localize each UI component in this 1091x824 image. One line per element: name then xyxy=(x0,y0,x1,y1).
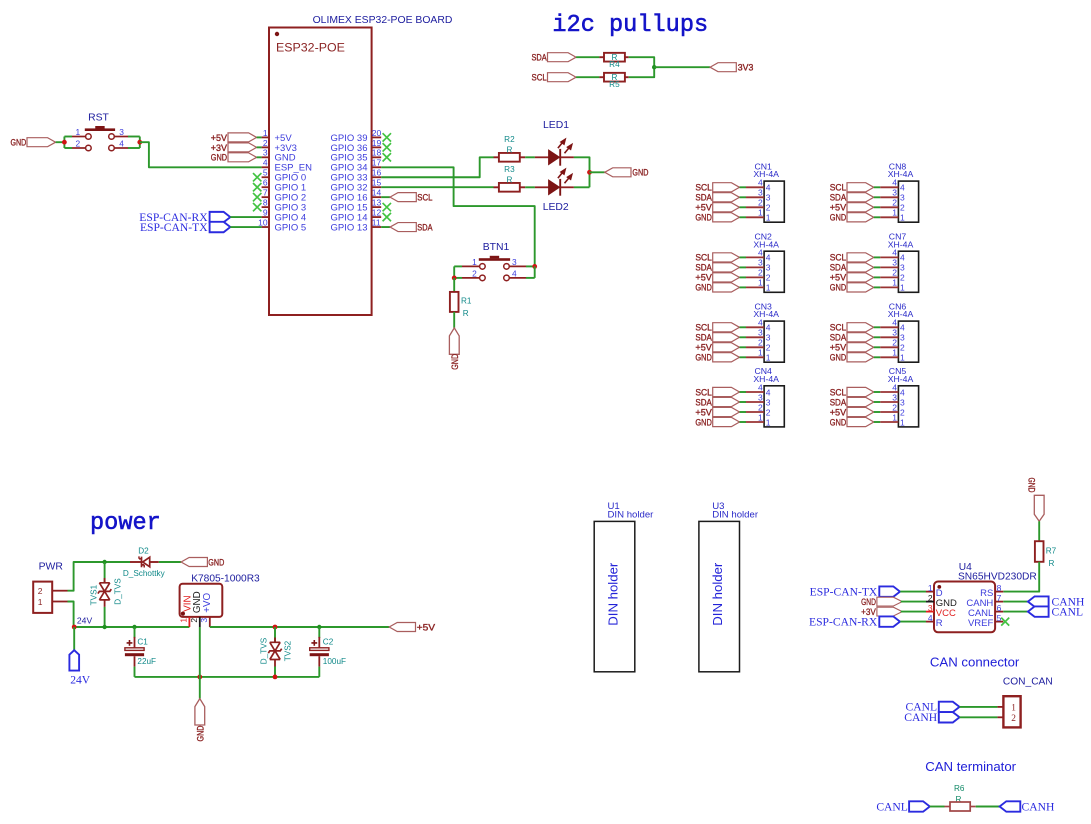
svg-text:4: 4 xyxy=(892,178,897,188)
svg-text:SDA: SDA xyxy=(532,53,548,64)
junction TVS1 top xyxy=(102,560,106,564)
CN5 pin 3 SDA xyxy=(830,392,905,408)
svg-text:3V3: 3V3 xyxy=(738,63,754,74)
svg-text:+VO: +VO xyxy=(202,592,213,612)
svg-text:1: 1 xyxy=(892,208,897,218)
CN4 pin 4 SCL xyxy=(695,382,770,398)
svg-text:1: 1 xyxy=(758,348,763,358)
wire +5V rail xyxy=(210,626,389,628)
svg-text:1: 1 xyxy=(179,618,189,623)
svg-text:2: 2 xyxy=(758,338,763,348)
svg-text:14: 14 xyxy=(372,188,382,198)
svg-text:SDA: SDA xyxy=(417,222,433,233)
svg-text:3: 3 xyxy=(928,603,933,613)
wire BTN1 left vertical xyxy=(453,266,455,278)
svg-text:R5: R5 xyxy=(609,80,620,89)
wire LED2 to GND node xyxy=(574,186,590,188)
connector CN5 XH-4A xyxy=(888,366,919,427)
resistor R4 xyxy=(599,53,628,69)
svg-text:LED2: LED2 xyxy=(543,202,569,213)
svg-text:+5V: +5V xyxy=(417,622,436,633)
U4 pin 2 GND xyxy=(926,593,957,609)
component U4 SN65HVD230DR xyxy=(934,562,1037,632)
svg-text:2: 2 xyxy=(766,407,771,417)
svg-text:GND: GND xyxy=(632,168,648,179)
svg-text:7: 7 xyxy=(997,593,1002,603)
wire BTN1 right vertical xyxy=(534,266,536,278)
TVS diode TVS1 xyxy=(89,562,122,607)
CN6 pin 1 GND xyxy=(830,348,905,364)
wire node to GND xyxy=(590,171,605,173)
svg-text:R3: R3 xyxy=(504,165,515,174)
svg-text:1: 1 xyxy=(766,213,771,223)
ESP32 pin 18 GPIO 35 xyxy=(331,148,382,164)
svg-text:R: R xyxy=(463,309,469,318)
svg-text:ESP32-POE: ESP32-POE xyxy=(276,41,345,55)
svg-text:1: 1 xyxy=(472,257,477,267)
svg-text:4: 4 xyxy=(263,158,268,168)
svg-text:3: 3 xyxy=(199,618,209,623)
wire R7 to RS pin xyxy=(1003,562,1039,592)
svg-text:3: 3 xyxy=(512,257,517,267)
wire pin14 to SCL xyxy=(381,196,390,198)
global label +3V at U4 xyxy=(861,607,926,617)
resistor R1 xyxy=(450,292,472,318)
svg-text:4: 4 xyxy=(892,248,897,258)
CN8 pin 1 GND xyxy=(830,208,905,224)
junction node 3V3 xyxy=(652,65,656,69)
ESP32 pin 4 ESP_EN xyxy=(262,158,313,174)
resistor R2 xyxy=(494,135,526,161)
junction TVS1 bottom xyxy=(102,625,106,629)
no-connect pin 6 xyxy=(253,183,261,191)
svg-text:3: 3 xyxy=(758,188,763,198)
svg-text:CANL: CANL xyxy=(876,800,908,813)
ESP32 pin 8 GPIO 3 xyxy=(262,198,307,214)
wire GND bus xyxy=(135,676,320,678)
svg-text:1: 1 xyxy=(76,127,81,137)
wire top rail to D2 xyxy=(105,561,130,563)
ESP32 pin 1 +5V xyxy=(262,128,293,144)
svg-text:5: 5 xyxy=(263,168,268,178)
wire R5 to node xyxy=(629,67,655,77)
svg-text:2: 2 xyxy=(928,593,933,603)
svg-text:BTN1: BTN1 xyxy=(483,242,510,253)
svg-text:15: 15 xyxy=(372,178,382,188)
CN1 pin 4 SCL xyxy=(695,178,770,194)
CN2 pin 4 SCL xyxy=(695,248,770,264)
hierarchical label ESP-CAN-TX xyxy=(140,221,262,234)
svg-text:2: 2 xyxy=(472,269,477,279)
global label GND after D2 xyxy=(181,557,224,568)
wire CANL to R6 xyxy=(930,806,945,808)
svg-text:GND: GND xyxy=(830,353,847,364)
svg-text:D_TVS: D_TVS xyxy=(113,578,122,605)
U4 pin 1 D xyxy=(926,583,943,599)
svg-text:D_Schottky: D_Schottky xyxy=(123,569,166,578)
junction C1 top xyxy=(132,625,136,629)
wire down to 24V flag xyxy=(73,627,75,650)
svg-text:K7805-1000R3: K7805-1000R3 xyxy=(191,573,260,584)
svg-text:3: 3 xyxy=(263,148,268,158)
svg-text:2: 2 xyxy=(38,586,43,596)
wire CANL xyxy=(1003,611,1028,613)
ESP32 pin 11 GPIO 13 xyxy=(331,217,382,233)
svg-text:ESP-CAN-TX: ESP-CAN-TX xyxy=(140,221,208,234)
svg-text:C2: C2 xyxy=(323,637,334,646)
svg-text:12: 12 xyxy=(372,207,382,217)
svg-text:R: R xyxy=(506,145,512,154)
svg-text:R2: R2 xyxy=(504,135,515,144)
svg-text:CAN terminator: CAN terminator xyxy=(925,759,1016,774)
no-connect pin 13 xyxy=(383,203,391,211)
svg-text:3: 3 xyxy=(892,328,897,338)
diode D2 D_Schottky xyxy=(123,547,166,579)
resistor R5 xyxy=(599,73,628,89)
U4 pin 8 RS xyxy=(980,583,1003,599)
CN2 pin 2 +5V xyxy=(695,268,770,284)
junction TVS2 top xyxy=(273,625,278,630)
svg-text:2: 2 xyxy=(766,343,771,353)
wire R6 to CANH xyxy=(976,806,1000,808)
svg-text:GND: GND xyxy=(695,353,712,364)
svg-text:R6: R6 xyxy=(954,784,965,793)
svg-text:CON_CAN: CON_CAN xyxy=(1003,676,1053,687)
svg-text:2: 2 xyxy=(758,402,763,412)
connector CN8 XH-4A xyxy=(888,161,919,222)
CN1 pin 1 GND xyxy=(695,208,770,224)
junction BTN1 left xyxy=(452,276,457,281)
svg-text:4: 4 xyxy=(512,269,517,279)
wire GPIO32 to R3 xyxy=(381,186,493,188)
svg-text:1: 1 xyxy=(263,128,268,138)
svg-text:1: 1 xyxy=(892,278,897,288)
hierarchical label CANL terminator xyxy=(876,800,929,813)
svg-text:CANH: CANH xyxy=(1022,800,1055,813)
svg-text:GND: GND xyxy=(830,213,847,224)
global label GND left xyxy=(11,138,56,149)
svg-text:2: 2 xyxy=(758,198,763,208)
svg-text:3: 3 xyxy=(766,263,771,273)
resistor R6 xyxy=(945,784,976,811)
ESP32 pin 2 +3V3 xyxy=(262,138,297,154)
svg-text:GND: GND xyxy=(830,417,847,428)
svg-text:8: 8 xyxy=(997,583,1002,593)
wire node to 3V3 xyxy=(654,66,710,68)
ESP32 pin 14 GPIO 16 xyxy=(331,188,382,204)
ESP32 pin 3 GND xyxy=(262,148,296,164)
wire GND to R7 xyxy=(1038,521,1040,541)
svg-text:4: 4 xyxy=(900,323,905,333)
no-connect pin 5 xyxy=(253,173,261,181)
svg-text:GND: GND xyxy=(695,283,712,294)
svg-text:3: 3 xyxy=(766,193,771,203)
svg-text:GND: GND xyxy=(196,725,207,741)
svg-text:9: 9 xyxy=(263,207,268,217)
svg-text:2: 2 xyxy=(900,343,905,353)
wire CANH xyxy=(960,716,998,718)
svg-text:CANH: CANH xyxy=(904,711,937,724)
no-connect pin 20 xyxy=(383,133,391,141)
junction PWR 24V xyxy=(72,625,77,630)
no-connect pin 7 xyxy=(253,193,261,201)
global label SCL xyxy=(390,193,433,204)
svg-text:1: 1 xyxy=(758,412,763,422)
wire CANL xyxy=(960,706,998,708)
hierarchical label CANL to connector xyxy=(906,701,960,714)
wire RST left vertical xyxy=(63,137,65,149)
svg-text:2: 2 xyxy=(900,273,905,283)
svg-text:R4: R4 xyxy=(609,60,620,69)
svg-text:4: 4 xyxy=(900,183,905,193)
svg-text:3: 3 xyxy=(766,333,771,343)
connector CN3 XH-4A xyxy=(753,301,784,362)
capacitor C2 100uF xyxy=(310,627,346,677)
wire D2 to GND xyxy=(159,561,181,563)
connector CN6 XH-4A xyxy=(888,301,919,362)
svg-text:2: 2 xyxy=(892,338,897,348)
svg-text:4: 4 xyxy=(766,253,771,263)
svg-text:LED1: LED1 xyxy=(543,120,569,131)
CN7 pin 1 GND xyxy=(830,278,905,294)
svg-text:R: R xyxy=(1049,559,1055,568)
svg-text:4: 4 xyxy=(758,318,763,328)
svg-text:i2c pullups: i2c pullups xyxy=(552,12,708,39)
pushbutton BTN1 xyxy=(454,256,535,281)
svg-text:3: 3 xyxy=(119,127,124,137)
svg-text:C1: C1 xyxy=(137,637,148,646)
svg-text:2: 2 xyxy=(76,139,81,149)
wire GPIO33 to R2 xyxy=(381,157,493,177)
svg-text:3: 3 xyxy=(758,392,763,402)
svg-text:R7: R7 xyxy=(1046,547,1057,556)
resistor R3 xyxy=(494,165,526,191)
ESP32 pin 9 GPIO 4 xyxy=(262,207,307,223)
power label 3V3 xyxy=(710,63,753,74)
connector CN2 XH-4A xyxy=(753,231,784,292)
svg-text:PWR: PWR xyxy=(39,562,64,573)
svg-text:4: 4 xyxy=(892,318,897,328)
svg-text:DIN holder: DIN holder xyxy=(606,562,621,626)
svg-text:1: 1 xyxy=(766,283,771,293)
svg-text:3: 3 xyxy=(892,258,897,268)
wire CANH xyxy=(1003,601,1028,603)
svg-text:3: 3 xyxy=(758,258,763,268)
ESP32 pin 10 GPIO 5 xyxy=(258,217,306,233)
wire regulator GND down xyxy=(199,627,201,699)
junction xyxy=(62,140,67,145)
svg-text:3: 3 xyxy=(758,328,763,338)
wire R1 to GND xyxy=(453,312,455,328)
svg-text:4: 4 xyxy=(758,178,763,188)
power label GND at pin 3 xyxy=(211,153,262,164)
svg-text:2: 2 xyxy=(263,138,268,148)
svg-text:1: 1 xyxy=(900,353,905,363)
power label +5V out xyxy=(389,622,436,633)
svg-text:GPIO 13: GPIO 13 xyxy=(331,222,368,233)
svg-text:GND: GND xyxy=(861,597,876,607)
svg-text:SCL: SCL xyxy=(532,73,548,84)
global label GND LEDs xyxy=(605,168,649,179)
no-connect pin 8 xyxy=(253,203,261,211)
CN6 pin 3 SDA xyxy=(830,328,905,344)
power flag GND above R7 xyxy=(1026,478,1045,522)
power flag GND regulator xyxy=(195,699,207,742)
CN5 pin 2 +5V xyxy=(830,402,905,418)
svg-text:2: 2 xyxy=(900,203,905,213)
junction LED GND xyxy=(587,170,592,175)
hierarchical label CANH xyxy=(1028,595,1085,608)
capacitor C1 22uF xyxy=(125,627,156,677)
svg-text:OLIMEX ESP32-POE BOARD: OLIMEX ESP32-POE BOARD xyxy=(313,15,453,26)
svg-text:1: 1 xyxy=(900,213,905,223)
CN7 pin 2 +5V xyxy=(830,268,905,284)
svg-text:GND: GND xyxy=(208,557,224,568)
wire GND to RST xyxy=(56,141,65,143)
svg-text:24V: 24V xyxy=(77,615,93,625)
svg-text:4: 4 xyxy=(758,382,763,392)
CN3 pin 4 SCL xyxy=(695,318,770,334)
hierarchical label ESP-CAN-TX at U4 xyxy=(810,585,926,598)
power label +5V at pin 1 xyxy=(211,133,262,144)
CN8 pin 4 SCL xyxy=(830,178,905,194)
pin-1 dot ESP32 xyxy=(275,32,279,36)
svg-text:3: 3 xyxy=(892,392,897,402)
svg-text:3: 3 xyxy=(766,397,771,407)
hierarchical label ESP-CAN-RX at U4 xyxy=(809,615,926,628)
ESP32 pin 5 GPIO 0 xyxy=(262,168,307,184)
wire SCL to R5 xyxy=(576,76,599,78)
svg-text:13: 13 xyxy=(372,198,382,208)
junction xyxy=(137,140,142,145)
svg-text:1: 1 xyxy=(892,412,897,422)
svg-text:3: 3 xyxy=(892,188,897,198)
svg-text:4: 4 xyxy=(766,323,771,333)
svg-text:SCL: SCL xyxy=(417,193,433,204)
svg-text:8: 8 xyxy=(263,198,268,208)
junction GND bus TVS2 xyxy=(273,675,278,680)
svg-text:11: 11 xyxy=(372,217,381,227)
wire RST right vertical xyxy=(139,137,141,149)
junction C2 top xyxy=(317,625,321,629)
connector CN4 XH-4A xyxy=(753,366,784,427)
svg-text:4: 4 xyxy=(766,387,771,397)
svg-text:4: 4 xyxy=(900,387,905,397)
svg-text:4: 4 xyxy=(758,248,763,258)
svg-text:R: R xyxy=(936,618,943,629)
ESP32 pin 7 GPIO 2 xyxy=(262,188,307,204)
wire RST to ESP_EN xyxy=(140,142,262,167)
CN3 pin 3 SDA xyxy=(695,328,770,344)
wire R3 to LED2 xyxy=(525,186,535,188)
wire GPIO34 to BTN1 xyxy=(381,167,535,266)
CN2 pin 1 GND xyxy=(695,278,770,294)
svg-text:GND: GND xyxy=(695,417,712,428)
no-connect VREF xyxy=(1001,618,1009,626)
svg-text:ESP-CAN-RX: ESP-CAN-RX xyxy=(809,615,878,628)
svg-text:1: 1 xyxy=(758,208,763,218)
LED LED2 xyxy=(535,169,574,196)
svg-text:TVS1: TVS1 xyxy=(89,584,98,605)
wire PWR pin1 to 24V rail xyxy=(68,602,74,628)
svg-text:1: 1 xyxy=(758,278,763,288)
svg-text:18: 18 xyxy=(372,148,382,158)
U4 pin 6 CANL xyxy=(968,603,1003,619)
ESP32 pin 6 GPIO 1 xyxy=(262,178,307,194)
global label SDA pullup xyxy=(532,53,577,64)
wire pin11 to SDA xyxy=(381,226,390,228)
svg-text:4: 4 xyxy=(900,253,905,263)
hierarchical label CANL xyxy=(1028,605,1083,618)
CN6 pin 2 +5V xyxy=(830,338,905,354)
svg-text:3: 3 xyxy=(900,263,905,273)
svg-text:1: 1 xyxy=(900,417,905,427)
CN7 pin 3 SDA xyxy=(830,258,905,274)
TVS diode TVS2 xyxy=(260,627,293,677)
no-connect pin 19 xyxy=(383,143,391,151)
global label GND at U4 xyxy=(861,597,926,607)
svg-text:3: 3 xyxy=(900,333,905,343)
wire R4 to node xyxy=(629,57,655,67)
svg-text:7: 7 xyxy=(263,188,268,198)
svg-text:CAN connector: CAN connector xyxy=(930,655,1020,670)
svg-text:1: 1 xyxy=(892,348,897,358)
svg-text:DIN holder: DIN holder xyxy=(712,510,759,521)
ESP32 pin 13 GPIO 15 xyxy=(331,198,382,214)
svg-text:4: 4 xyxy=(892,382,897,392)
svg-text:2: 2 xyxy=(892,198,897,208)
svg-text:GND: GND xyxy=(830,283,847,294)
svg-text:2: 2 xyxy=(892,268,897,278)
junction BTN1 right xyxy=(532,264,537,269)
svg-text:17: 17 xyxy=(372,158,382,168)
no-connect pin 18 xyxy=(383,153,391,161)
svg-text:TVS2: TVS2 xyxy=(283,640,292,661)
svg-text:100uF: 100uF xyxy=(323,657,346,666)
U4 pin 3 VCC xyxy=(926,603,956,619)
connector CON_CAN xyxy=(997,696,1020,727)
svg-text:3: 3 xyxy=(900,397,905,407)
svg-text:2: 2 xyxy=(900,407,905,417)
svg-text:20: 20 xyxy=(372,128,382,138)
svg-text:1: 1 xyxy=(1011,703,1016,713)
ESP32 pin 17 GPIO 34 xyxy=(331,158,382,174)
CN6 pin 4 SCL xyxy=(830,318,905,334)
ESP32 pin 19 GPIO 36 xyxy=(331,138,382,154)
CN7 pin 4 SCL xyxy=(830,248,905,264)
svg-text:4: 4 xyxy=(766,183,771,193)
wire 24V rail xyxy=(74,626,190,628)
CN5 pin 1 GND xyxy=(830,412,905,428)
svg-text:2: 2 xyxy=(189,618,199,623)
wire BTN1 to R1 xyxy=(453,278,455,292)
svg-text:RST: RST xyxy=(88,112,109,123)
hierarchical label CANH to connector xyxy=(904,711,959,724)
svg-text:VREF: VREF xyxy=(968,618,994,629)
wire R2 to LED1 xyxy=(525,156,535,158)
CN8 pin 2 +5V xyxy=(830,198,905,214)
U4 pin 5 VREF no-connect xyxy=(968,613,1003,629)
regulator U? K7805-1000R3 xyxy=(179,573,260,627)
connector CN1 XH-4A xyxy=(753,161,784,222)
CN8 pin 3 SDA xyxy=(830,188,905,204)
svg-text:R1: R1 xyxy=(461,297,472,306)
global label SCL pullup xyxy=(532,73,577,84)
connector PWR xyxy=(33,582,67,613)
U4 pin 4 R xyxy=(926,613,943,629)
CN4 pin 3 SDA xyxy=(695,392,770,408)
component U3 DIN holder xyxy=(699,501,759,672)
